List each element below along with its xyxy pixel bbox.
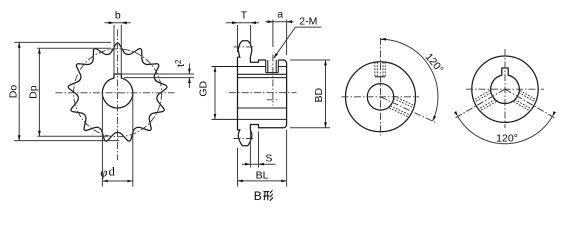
- pitch circle (front view): [74, 49, 162, 137]
- end view 2 screw axis centerlines: [454, 89, 505, 119]
- end view 2 outer circle: [472, 56, 538, 122]
- end view 2 lower-left set screw hole (hidden lines): [479, 102, 496, 112]
- dimension Dp: [38, 48, 40, 136]
- dimension Do: [18, 42, 20, 140]
- svg-text:φ: φ: [100, 166, 107, 180]
- bore circle with keyway (front view): [102, 74, 132, 108]
- dimension a: [265, 21, 293, 23]
- section keyway bottom line: [238, 73, 287, 75]
- dimension t2 extension lines: [121, 73, 194, 75]
- dimension phi d extension lines: [101, 93, 103, 187]
- svg-text:Do: Do: [7, 85, 19, 99]
- svg-text:2-M: 2-M: [299, 16, 317, 28]
- kanji kei (shape) drawn with strokes: [263, 191, 269, 193]
- svg-text:Dp: Dp: [28, 85, 40, 99]
- end view 1 bore circle: [367, 84, 393, 110]
- end view 2 lower-right set screw hole (hidden lines): [520, 91, 537, 101]
- svg-text:B: B: [254, 189, 262, 203]
- dimension b: [105, 22, 131, 24]
- set screw axis centerline: [272, 55, 274, 106]
- leader arrow 2-M: [295, 26, 321, 28]
- end view 1 horizontal centerline: [342, 96, 420, 98]
- dimension BL: [238, 180, 287, 182]
- svg-text:a: a: [277, 8, 283, 20]
- end view 1 second screw axis centerline: [381, 97, 436, 123]
- svg-text:b: b: [115, 10, 121, 22]
- end view 1 second set screw hole (hidden lines): [395, 96, 415, 106]
- dimension BD: [325, 60, 327, 128]
- end view 1 120 degree arc: [381, 39, 438, 121]
- section internal line GD top: [212, 66, 266, 68]
- dimension BD extension lines: [290, 59, 330, 61]
- dimension a extension lines: [272, 20, 274, 48]
- pitch line top tooth: [234, 46, 255, 48]
- svg-text:S: S: [265, 152, 272, 164]
- svg-text:d: d: [109, 165, 116, 179]
- dimension S extension lines: [249, 132, 251, 168]
- end view 1 outer circle: [346, 62, 416, 132]
- svg-text:BL: BL: [256, 169, 269, 181]
- section axis centerline: [229, 92, 297, 94]
- dimension Dp extension lines: [37, 47, 111, 49]
- end view 1 top set screw hole (hidden lines): [374, 62, 376, 77]
- svg-text:T: T: [241, 9, 248, 21]
- front view horizontal centerline: [56, 92, 175, 94]
- set screw hole (section): [265, 60, 267, 73]
- section internal line GD bottom: [212, 118, 287, 120]
- dimension S: [242, 163, 276, 165]
- dimension phi d: [102, 180, 132, 182]
- sprocket front view teeth outline: [68, 43, 167, 141]
- dimension T: [226, 22, 259, 24]
- section bore top line: [238, 77, 287, 79]
- svg-text:120°: 120°: [496, 133, 518, 145]
- dimension T extension lines: [237, 25, 239, 52]
- section bore bottom line: [238, 107, 287, 109]
- dimension b extension lines: [113, 25, 115, 74]
- section view outer profile: [238, 41, 287, 146]
- set screw far-hole center mark: [267, 99, 279, 101]
- svg-text:BD: BD: [313, 87, 325, 102]
- front view vertical centerline: [117, 30, 119, 161]
- dimension t2: [188, 64, 190, 75]
- end view 1 vertical centerline: [380, 38, 382, 136]
- svg-text:GD: GD: [198, 81, 210, 97]
- dimension GD: [214, 67, 216, 120]
- end view 2 vertical centerline: [504, 49, 506, 128]
- dimension BL extension lines: [237, 148, 239, 187]
- end view 2 horizontal centerline: [466, 88, 544, 90]
- end view 2 120 degree arc: [458, 117, 552, 144]
- end view 2 bore circle with keyway: [491, 68, 520, 103]
- pitch line bottom tooth: [234, 138, 255, 140]
- dimension Do extension lines: [14, 41, 111, 43]
